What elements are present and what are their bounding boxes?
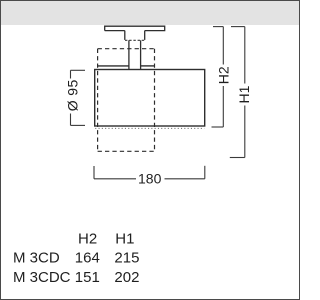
svg-text:Ø 95: Ø 95 bbox=[64, 79, 80, 111]
svg-text:H2: H2 bbox=[78, 231, 97, 248]
dimension Ø95 (body height) bbox=[71, 70, 86, 125]
svg-text:H2: H2 bbox=[216, 66, 232, 84]
canopy dotted bottom edge bbox=[125, 39, 145, 41]
svg-text:164: 164 bbox=[75, 250, 100, 267]
collar top line (right segment) bbox=[141, 65, 155, 67]
stem bbox=[129, 40, 141, 69]
collar top line (left segment) bbox=[98, 65, 129, 67]
svg-text:M 3CD: M 3CD bbox=[13, 250, 60, 267]
cylindrical body bbox=[95, 70, 205, 127]
svg-text:H1: H1 bbox=[115, 231, 134, 248]
dimension H1 bbox=[230, 27, 245, 158]
ceiling mounting plate bbox=[105, 26, 165, 30]
dashed outline (swivelled lamp position) bbox=[98, 49, 155, 152]
svg-text:180: 180 bbox=[138, 171, 162, 187]
svg-text:151: 151 bbox=[75, 269, 100, 286]
svg-text:202: 202 bbox=[114, 269, 139, 286]
svg-text:M 3CDC: M 3CDC bbox=[13, 269, 71, 286]
gray header bar bbox=[1, 1, 299, 25]
svg-text:H1: H1 bbox=[236, 85, 252, 103]
dimension 180 (body width) bbox=[94, 166, 205, 179]
dimension H2 bbox=[212, 27, 224, 127]
dotted hidden edge under body bbox=[95, 127, 204, 129]
svg-text:215: 215 bbox=[114, 250, 139, 267]
canopy block below plate bbox=[125, 31, 145, 40]
